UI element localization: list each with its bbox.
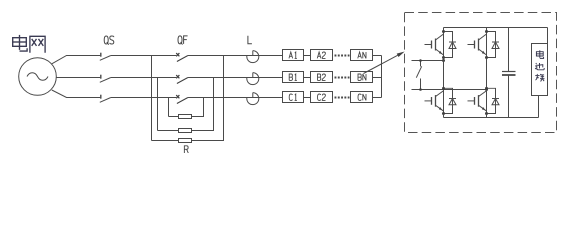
wire battery top connection <box>547 28 549 44</box>
wire right leg middle <box>486 58 488 89</box>
wire B1 to B2 <box>304 77 311 79</box>
wire through reactor phase B <box>248 77 260 79</box>
wire phase B QS to QF <box>111 77 176 79</box>
node switch bottom <box>419 88 422 91</box>
label L <box>248 36 252 44</box>
capacitor C top lead <box>508 28 510 72</box>
wire AN to bus <box>373 55 382 57</box>
wire right leg top <box>486 28 488 32</box>
module box B1 <box>283 72 304 83</box>
wire reactor to A1 <box>260 55 283 57</box>
label R <box>184 146 188 153</box>
resistor R phase B <box>179 129 192 133</box>
wire resistor to right riser phase A <box>192 56 224 141</box>
module box BN <box>351 72 373 83</box>
label QF <box>178 36 188 45</box>
wire CN to bus <box>373 97 382 99</box>
disconnector QS phase A <box>100 53 111 61</box>
wire through reactor phase A <box>248 55 260 57</box>
wire phase B from source <box>56 77 100 79</box>
wire bypass left drop phase A <box>151 56 153 141</box>
node AC2 at right leg <box>485 88 488 91</box>
wire top rail <box>444 27 548 29</box>
wire phase A fan from source <box>52 56 101 64</box>
dotted continuation row A <box>335 55 350 57</box>
module box CN <box>351 92 373 103</box>
dotted continuation row B <box>335 77 350 79</box>
wire phase A QF to reactor <box>188 55 248 57</box>
wire resistor to right riser phase C <box>192 98 204 117</box>
wire to resistor phase A <box>152 140 179 142</box>
module box C2 <box>311 92 333 103</box>
wire to resistor phase C <box>169 116 179 118</box>
battery pack box <box>532 44 548 96</box>
IGBT V2 bottom-left <box>425 87 457 115</box>
wire battery bottom connection <box>538 96 540 118</box>
wire left leg bottom <box>443 114 445 118</box>
capacitor C bottom lead <box>508 75 510 118</box>
IGBT V1 top-left <box>425 30 457 59</box>
wire right leg bottom <box>486 114 488 118</box>
module box B2 <box>311 72 333 83</box>
dashed cell boundary box <box>405 13 557 133</box>
module box C1 <box>283 92 304 103</box>
breaker QF phase C <box>176 95 188 103</box>
reactor L phase C <box>247 93 259 105</box>
wire left leg top <box>443 28 445 32</box>
disconnector QS phase C <box>100 95 111 103</box>
wire reactor to C1 <box>260 97 283 99</box>
wire bypass left drop phase B <box>157 78 159 131</box>
wire BN to bus <box>373 77 382 79</box>
label QS <box>104 36 114 45</box>
label 电池族 vertical <box>535 50 544 81</box>
wire through reactor phase C <box>248 97 260 99</box>
capacitor C plates <box>502 71 516 73</box>
resistor R phase A <box>179 139 192 143</box>
wire AC terminal 1 <box>412 60 444 62</box>
wire phase C QS to QF <box>111 97 176 99</box>
wire to resistor phase B <box>158 130 179 132</box>
wire left leg middle <box>443 58 445 89</box>
dotted continuation row C <box>335 97 350 99</box>
wire A1 to A2 <box>304 55 311 57</box>
wire bottom rail <box>444 117 539 119</box>
module box A2 <box>311 50 333 61</box>
reactor L phase B <box>247 73 259 85</box>
resistor R phase C <box>179 115 192 119</box>
node switch top <box>419 59 422 62</box>
AC source G1 circle <box>19 58 57 96</box>
wire AC terminal 2 <box>412 89 487 91</box>
wire phase A QS to QF <box>111 55 176 57</box>
wire reactor to B1 <box>260 77 283 79</box>
module box A1 <box>283 50 304 61</box>
bypass switch S1 <box>416 61 421 90</box>
AC source sine wave <box>27 73 48 81</box>
arrow callout from BN to cell detail <box>364 55 398 73</box>
wire C1 to C2 <box>304 97 311 99</box>
IGBT V4 bottom-right <box>468 87 500 115</box>
IGBT V3 top-right <box>468 30 500 59</box>
module box AN <box>351 50 373 61</box>
breaker QF phase B <box>176 75 188 83</box>
reactor L phase A <box>247 51 259 63</box>
node AC1 at left leg <box>442 59 445 62</box>
wire neutral bus <box>381 56 383 98</box>
wire phase C fan from source <box>52 90 101 98</box>
wire bypass left drop phase C <box>168 98 170 117</box>
disconnector QS phase B <box>100 75 111 83</box>
label 电网 (grid) <box>13 35 45 53</box>
wire phase C QF to reactor <box>188 97 248 99</box>
wire resistor to right riser phase B <box>192 78 214 131</box>
wire phase B QF to reactor <box>188 77 248 79</box>
breaker QF phase A <box>176 53 188 61</box>
